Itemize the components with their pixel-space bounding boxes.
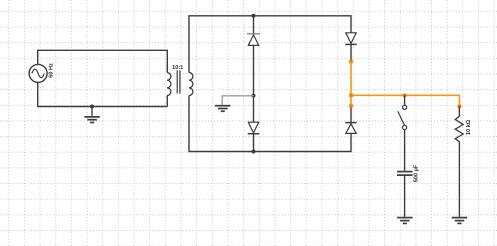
wire D4 lower — [350, 106, 352, 123]
diode D1 — [247, 34, 260, 46]
svg-text:60 Hz: 60 Hz — [49, 63, 55, 78]
node orange dot switch junction — [403, 94, 407, 98]
wire switch to capacitor — [404, 130, 406, 171]
wire D3 to node — [350, 44, 352, 61]
node orange dot junction left — [349, 94, 353, 98]
AC source V1 — [29, 64, 47, 82]
ground middle — [215, 106, 231, 112]
node dot primary ground junction — [90, 105, 94, 109]
ground capacitor — [397, 218, 413, 224]
wire resistor to ground — [458, 142, 460, 217]
node orange dot resistor terminal — [457, 104, 461, 108]
wire primary loop top — [38, 50, 168, 72]
wire inner branch top — [253, 16, 255, 33]
wire inner branch middle — [253, 45, 255, 122]
wire capacitor to ground — [404, 175, 406, 217]
svg-text:10 kΩ: 10 kΩ — [466, 119, 472, 135]
resistor R1 — [455, 116, 463, 142]
diode D2 — [248, 122, 259, 134]
node dot mid inner branch — [252, 94, 256, 98]
svg-text:10:1: 10:1 — [172, 65, 183, 71]
wire primary loop bottom-right — [166, 96, 168, 107]
wire secondary bus lower — [189, 96, 351, 152]
wire orange horizontal rail — [351, 95, 459, 106]
wire resistor top lead — [458, 106, 460, 116]
wire primary ground stub — [91, 107, 93, 116]
capacitor C1 — [397, 172, 413, 176]
ground primary — [84, 117, 100, 123]
wire secondary bus upper — [189, 16, 351, 73]
wire inner branch bottom — [253, 134, 255, 152]
node orange dot D4 terminal — [349, 104, 353, 108]
node orange dot D3 terminal — [349, 60, 353, 64]
wire orange vertical at D3 — [350, 62, 352, 107]
transformer T1 primary coil — [167, 73, 171, 96]
diode D3 — [345, 33, 356, 45]
node dot top rail — [252, 14, 256, 18]
svg-text:500 µF: 500 µF — [413, 164, 419, 182]
transformer T1 core — [177, 70, 180, 93]
transformer T1 secondary coil — [189, 73, 193, 96]
diode D4 — [345, 123, 356, 134]
ground resistor — [452, 218, 468, 224]
wire gray net to ground — [222, 96, 253, 105]
switch S1 — [398, 95, 407, 129]
node dot bottom rail — [252, 150, 256, 154]
wire primary loop bottom — [38, 82, 168, 107]
